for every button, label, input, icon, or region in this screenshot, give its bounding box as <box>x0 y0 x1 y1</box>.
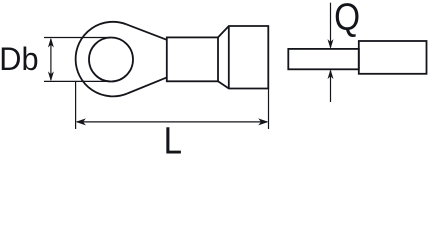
crimp barrel rectangle <box>167 37 218 81</box>
Db dimension arrow shaft <box>50 39 52 80</box>
svg-text:L: L <box>164 119 182 161</box>
L left extension line <box>75 81 77 129</box>
Db arrowhead up <box>48 38 54 48</box>
Q top dimension shaft <box>330 3 332 48</box>
tongue bottom tangent line <box>127 77 167 93</box>
Db arrowhead down <box>48 71 54 81</box>
insulation flare and sleeve outline <box>218 26 268 89</box>
Q bottom dimension shaft <box>330 71 332 103</box>
L arrowhead left <box>76 118 86 125</box>
ring inner hole circle <box>89 38 133 82</box>
Db top extension line <box>44 37 110 39</box>
second view flat tab rectangle <box>288 49 359 69</box>
Q arrowhead up <box>328 69 334 79</box>
Q arrowhead down <box>328 39 334 49</box>
ring terminal outer profile arc <box>76 22 127 97</box>
svg-text:Q: Q <box>334 0 360 38</box>
second view sleeve rectangle <box>359 41 427 74</box>
Db bottom extension line <box>44 80 110 82</box>
L arrowhead right <box>258 118 268 125</box>
svg-text:Db: Db <box>0 41 39 77</box>
sleeve left edge line <box>228 26 230 89</box>
L right extension line <box>268 89 270 130</box>
tongue top tangent line <box>126 24 167 40</box>
L dimension line <box>77 121 267 123</box>
